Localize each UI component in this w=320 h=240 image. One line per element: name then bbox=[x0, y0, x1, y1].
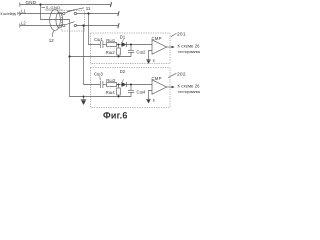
svg-text:Cш1: Cш1 bbox=[94, 37, 104, 42]
svg-text:К шлейфу Р1: К шлейфу Р1 bbox=[1, 12, 22, 16]
svg-text:Rш1: Rш1 bbox=[106, 38, 116, 43]
svg-text:Cш3: Cш3 bbox=[94, 71, 104, 76]
svg-text:D2: D2 bbox=[120, 69, 126, 74]
svg-text:D1: D1 bbox=[120, 35, 126, 40]
svg-text:Rш4: Rш4 bbox=[106, 90, 116, 95]
svg-text:CMP: CMP bbox=[152, 76, 162, 81]
svg-text:К схеме 26: К схеме 26 bbox=[178, 83, 201, 88]
svg-text:Фиг.6: Фиг.6 bbox=[103, 110, 128, 120]
svg-text:Rш2: Rш2 bbox=[106, 50, 116, 55]
svg-text:L2: L2 bbox=[21, 21, 26, 26]
svg-text:201: 201 bbox=[177, 31, 186, 37]
svg-text:S-GND: S-GND bbox=[46, 5, 61, 10]
svg-text:GND: GND bbox=[26, 0, 37, 5]
svg-text:тестирования: тестирования bbox=[178, 50, 200, 54]
svg-text:L1: L1 bbox=[21, 9, 26, 14]
svg-text:Cш2: Cш2 bbox=[137, 50, 147, 55]
svg-text:К схеме 26: К схеме 26 bbox=[178, 43, 201, 48]
svg-text:тестирования: тестирования bbox=[178, 90, 200, 94]
svg-text:CMP: CMP bbox=[152, 36, 162, 41]
svg-text:Cш4: Cш4 bbox=[137, 90, 147, 95]
svg-text:11: 11 bbox=[86, 6, 91, 11]
svg-text:202: 202 bbox=[177, 71, 186, 77]
svg-text:Rш3: Rш3 bbox=[106, 78, 116, 83]
svg-text:12: 12 bbox=[49, 38, 55, 43]
